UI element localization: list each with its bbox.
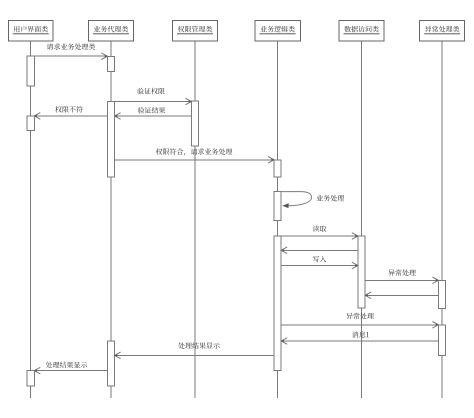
message 写入 — [281, 262, 358, 269]
activation 业务逻辑类 A1 — [274, 160, 281, 177]
message 权限符合，请求业务处理 — [115, 157, 274, 164]
object box 用户界面类 — [9, 21, 54, 42]
message return 异常处理结果 — [365, 292, 438, 299]
activation 业务代理类 A1 — [107, 56, 114, 71]
label 消息1 — [352, 331, 369, 338]
object box 异常处理类 — [420, 21, 465, 42]
activation 用户界面类 A2 — [27, 116, 34, 131]
activation 用户界面类 A3 — [27, 371, 34, 387]
activation 业务代理类 A3 — [107, 341, 114, 386]
object box 数据访问类 — [339, 21, 384, 42]
message 验证结果 — [115, 113, 192, 120]
activation 业务逻辑类 A3 — [274, 236, 281, 370]
activation 权限管理类 A1 — [191, 101, 198, 146]
activation 用户界面类 A1 — [27, 56, 34, 86]
label 异常处理 — [388, 269, 416, 275]
message 权限不符 — [34, 113, 107, 120]
lifeline 业务逻辑类 — [277, 41, 279, 398]
label 异常处理 2 — [346, 313, 374, 319]
message 处理结果显示 (业务代理类→用户界面类) — [34, 367, 107, 374]
label 处理结果显示 2 — [46, 362, 88, 368]
message 处理结果显示 (业务逻辑类→业务代理类) — [115, 352, 274, 359]
label 写入 — [313, 256, 327, 262]
activation 数据访问类 A1 — [358, 236, 365, 308]
message 读取 — [281, 233, 358, 240]
message 业务处理 (self call) — [281, 192, 311, 209]
object box 权限管理类 — [173, 21, 218, 42]
lifeline 数据访问类 — [361, 41, 363, 398]
label 验证结果 — [138, 107, 166, 113]
label 读取 — [313, 225, 327, 231]
object box 业务逻辑类 — [255, 21, 300, 42]
label 验证权限 — [137, 88, 165, 95]
lifeline 异常处理类 — [441, 41, 443, 398]
message return 读取结果 — [281, 247, 358, 254]
label 权限不符 — [55, 106, 83, 113]
activation 业务逻辑类 A2 — [274, 191, 281, 220]
activation 异常处理类 A1 — [438, 280, 445, 308]
message 异常处理 (数据访问类→异常处理类) — [365, 277, 438, 284]
activation 异常处理类 A2 — [438, 325, 445, 356]
object box 业务代理类 — [88, 21, 133, 42]
label 业务处理 — [317, 195, 345, 202]
lifeline 业务代理类 — [110, 41, 112, 398]
label 请求业务处理类 — [47, 43, 96, 50]
lifeline 权限管理类 — [194, 41, 196, 398]
activation 业务代理类 A2 — [107, 102, 114, 178]
lifeline 用户界面类 — [30, 41, 32, 398]
label 权限符合，请求业务处理 — [156, 148, 233, 155]
label 处理结果显示 — [178, 342, 220, 348]
message 请求业务处理类 — [34, 53, 107, 60]
message 异常处理 (业务逻辑类→异常处理类) — [281, 322, 438, 329]
message 消息1 — [281, 338, 438, 345]
message 验证权限 — [115, 98, 192, 105]
